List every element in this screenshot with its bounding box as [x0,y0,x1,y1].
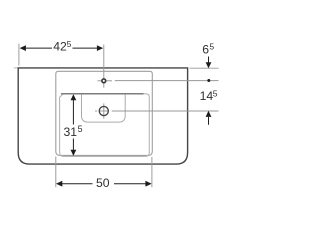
tap hole [98,80,113,82]
svg-text:50: 50 [96,176,110,190]
drain hole [99,106,108,115]
drain centre line extension to right [112,110,219,112]
drain centre cross [95,103,109,118]
svg-text:42: 42 [53,40,67,54]
svg-text:31: 31 [64,125,78,139]
svg-text:6: 6 [202,42,209,56]
bowl rear edge (dark segment) [61,93,144,95]
bowl outline [60,94,150,157]
dimension marker dot on tap centre line [207,79,210,82]
rear edge extension line to right [190,67,219,69]
extension line left (42.5) [18,44,20,66]
svg-text:5: 5 [67,39,72,49]
washbasin outer outline [18,68,187,164]
bowl bottom inner contour [82,94,126,122]
svg-text:14: 14 [200,89,214,103]
dimension 42.5 [25,47,99,49]
svg-text:5: 5 [209,42,214,52]
rear edge overshoot tick [14,67,18,69]
extension / centre line through tap hole (vertical) [103,45,105,88]
tap hole centre line extension to right [115,80,219,82]
svg-text:5: 5 [213,89,218,99]
dimension 6.5 (arrow down to rear edge) [208,57,210,63]
dimension 14.5 (arrow up to drain line) [206,111,212,117]
svg-text:5: 5 [78,124,83,134]
extension lines for 50 [55,157,57,188]
deck inner line (rounded rect) [56,71,153,155]
dimension 50 [61,183,148,185]
dimension 31.5 (vertical inside bowl) [72,100,74,151]
